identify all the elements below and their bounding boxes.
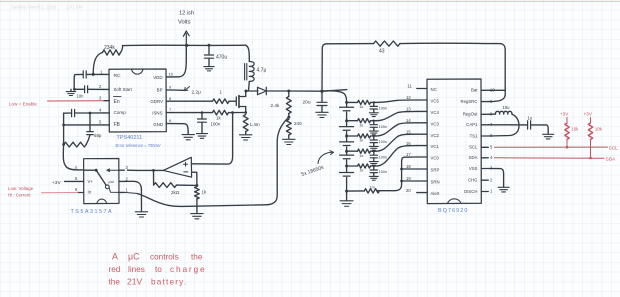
svg-text:+3V: +3V — [52, 180, 61, 186]
svg-text:SDA: SDA — [469, 155, 478, 160]
wire opamp minus — [192, 172, 197, 185]
wire VC0 SRP SRN bus — [378, 157, 417, 191]
node tap4 — [345, 165, 348, 168]
capacitor C-vc4 100n — [373, 120, 375, 122]
ground G-sense — [240, 135, 252, 140]
ground G-opamp — [191, 214, 203, 219]
node divider top — [287, 90, 290, 93]
svg-text:2.2μ: 2.2μ — [192, 90, 202, 96]
wire battery bottom — [346, 191, 348, 200]
transistor Q1 nfet — [235, 97, 237, 106]
U1 pin stubs left — [104, 74, 110, 125]
U2 throw2 — [109, 188, 119, 192]
resistor R-vc4 — [347, 120, 358, 122]
wire vc2 to pin — [376, 134, 417, 151]
U3 pin stubs left — [417, 89, 427, 193]
svg-text:20u: 20u — [303, 100, 311, 106]
wire L2 to TS1 — [489, 114, 519, 136]
svg-text:charge: charge — [170, 264, 206, 274]
battery cell B1 — [340, 107, 354, 111]
annotation arrow to battery — [318, 151, 334, 164]
resistor R-FB — [64, 142, 87, 147]
battery cell B3 — [340, 142, 354, 146]
svg-text:μC: μC — [128, 252, 140, 262]
svg-text:pol: pol — [109, 179, 114, 184]
svg-text:12 ish: 12 ish — [179, 11, 194, 17]
wire SDA red — [495, 157, 605, 159]
svg-text:240: 240 — [294, 121, 302, 126]
svg-text:SDA: SDA — [606, 157, 617, 163]
op-amp U3 BQ76920 body — [427, 79, 481, 204]
svg-text:4: 4 — [490, 155, 493, 160]
ground G-vss — [498, 187, 509, 192]
svg-text:10k: 10k — [595, 127, 603, 132]
node tap1 — [345, 119, 348, 122]
op-amp U4 body — [163, 157, 191, 177]
svg-text:2: 2 — [99, 84, 102, 89]
svg-text:VSS: VSS — [469, 166, 478, 171]
svg-text:100n: 100n — [379, 155, 387, 159]
wire BP — [172, 89, 184, 91]
svg-text:VC3: VC3 — [431, 121, 440, 126]
svg-text:controls: controls — [150, 253, 179, 262]
svg-text:Alert: Alert — [431, 191, 441, 196]
wire GND pin — [172, 124, 188, 134]
svg-text:the: the — [109, 277, 121, 286]
capacitor C-68p — [89, 113, 91, 131]
svg-text:ISNS: ISNS — [152, 111, 162, 116]
svg-text:7: 7 — [169, 107, 172, 112]
svg-text:SCL: SCL — [609, 145, 619, 151]
svg-text:1.4m: 1.4m — [250, 122, 260, 127]
U1 pin stubs right — [166, 77, 172, 124]
svg-text:VC5: VC5 — [431, 99, 440, 104]
battery cell B4 — [340, 155, 354, 159]
svg-text:DISCH: DISCH — [464, 189, 477, 194]
U2 lever — [96, 170, 106, 185]
node C-in junction — [208, 44, 211, 47]
svg-text:Volts: Volts — [178, 20, 191, 26]
svg-text:100n: 100n — [211, 122, 221, 127]
svg-text:14: 14 — [406, 118, 411, 123]
svg-text:TS1: TS1 — [470, 133, 478, 138]
svg-text:17: 17 — [406, 152, 411, 157]
wire comp-FB vertical — [64, 113, 104, 144]
svg-text:TPS40211: TPS40211 — [117, 135, 143, 141]
svg-text:9: 9 — [169, 85, 172, 90]
svg-text:3: 3 — [126, 165, 129, 170]
wire rail2 right — [400, 43, 505, 95]
svg-text:18: 18 — [406, 164, 411, 169]
svg-text:RegOut: RegOut — [463, 112, 479, 117]
svg-text:+3V: +3V — [584, 112, 593, 117]
svg-text:TS5A3157A: TS5A3157A — [71, 209, 114, 215]
wire opamp plus input — [192, 113, 233, 165]
svg-text:10: 10 — [169, 72, 174, 77]
svg-text:11: 11 — [408, 84, 413, 89]
svg-text:FB: FB — [114, 122, 121, 128]
svg-text:Bat: Bat — [471, 88, 478, 93]
resistor R-vc1 — [347, 165, 358, 167]
node ISNS cap tap — [201, 111, 204, 114]
svg-text:Error reference = 700mV: Error reference = 700mV — [116, 143, 161, 148]
wire vc4 to pin — [376, 111, 417, 120]
wire Bat pin — [488, 89, 505, 91]
resistor R-pullup2 10k — [588, 123, 592, 140]
node SS junction — [73, 88, 76, 91]
svg-text:19: 19 — [406, 176, 411, 181]
wire battery bottom to sense — [345, 190, 348, 193]
svg-text:SCL: SCL — [469, 145, 478, 150]
svg-text:1k: 1k — [202, 190, 207, 195]
capacitor C-100n — [201, 113, 203, 119]
svg-text:100n: 100n — [379, 170, 387, 174]
ground G-div — [283, 139, 295, 144]
svg-text:Sunday, March 1, 2020: Sunday, March 1, 2020 — [11, 5, 57, 10]
svg-text:VC1: VC1 — [431, 144, 440, 149]
wire out to battery — [322, 90, 347, 92]
svg-text:5: 5 — [99, 120, 102, 125]
capacitor C-RC — [83, 71, 86, 78]
ground G-U1 — [182, 135, 194, 140]
svg-text:12: 12 — [406, 95, 411, 100]
svg-text:VC0: VC0 — [431, 156, 440, 161]
svg-text:100n: 100n — [379, 125, 387, 129]
svg-text:SRP: SRP — [431, 168, 440, 173]
svg-text:BQ76920: BQ76920 — [438, 208, 468, 214]
wire ISNS — [172, 112, 212, 114]
svg-text:68p: 68p — [94, 133, 102, 138]
svg-text:RegSRC: RegSRC — [461, 99, 478, 104]
svg-text:VC4: VC4 — [431, 110, 440, 115]
U2 pin stubs right — [119, 170, 124, 192]
svg-text:BP: BP — [157, 88, 163, 93]
svg-text:4.7μ: 4.7μ — [257, 68, 267, 74]
svg-text:10n: 10n — [77, 94, 85, 99]
resistor R-isns 1k — [212, 110, 228, 115]
battery cell B2 — [340, 127, 354, 131]
capacitor C-comp — [90, 112, 104, 114]
wire sw1 feedback — [124, 192, 139, 194]
node SDA junction — [589, 157, 592, 160]
svg-text:5x 18650s: 5x 18650s — [301, 165, 325, 178]
ground G-battery — [340, 201, 353, 206]
svg-text:1k: 1k — [360, 154, 364, 158]
svg-text:GDRV: GDRV — [150, 99, 163, 104]
svg-text:1k: 1k — [360, 105, 364, 109]
analog switch U2 body — [84, 159, 119, 204]
ground G-cap1 — [543, 134, 554, 139]
resistor R-vc2 — [347, 150, 358, 152]
capacitor C-in 470u — [208, 45, 210, 54]
node tap2 — [345, 135, 348, 138]
VIN arrow — [183, 31, 189, 45]
svg-text:1: 1 — [126, 188, 129, 193]
svg-text:A: A — [112, 252, 118, 262]
node VIN junction — [185, 44, 188, 47]
svg-text:20: 20 — [406, 188, 411, 193]
svg-text:GND: GND — [153, 122, 163, 127]
svg-text:1: 1 — [220, 90, 223, 95]
node tap3 — [345, 150, 348, 153]
svg-text:1k: 1k — [360, 123, 364, 127]
svg-text:100n: 100n — [379, 107, 387, 111]
wire EN red — [48, 100, 104, 102]
wire vc5 to pin — [376, 100, 417, 102]
svg-text:10k: 10k — [572, 127, 580, 132]
svg-text:NC: NC — [431, 87, 437, 92]
wire div tap feedback — [138, 117, 289, 206]
svg-text:4: 4 — [99, 108, 102, 113]
svg-text:VDD: VDD — [153, 75, 162, 80]
resistor R-vc3 — [347, 135, 358, 137]
U2 throw1 — [107, 169, 119, 172]
wire top rail 2 — [327, 43, 374, 45]
wire FB to switch — [63, 144, 78, 170]
wire battery stack — [346, 102, 348, 191]
resistor R-gnd 1k — [195, 187, 200, 199]
svg-text:5: 5 — [75, 176, 78, 181]
svg-text:Soft Start: Soft Start — [114, 87, 133, 92]
svg-text:RC: RC — [114, 73, 122, 79]
wire sw3 to opamp — [128, 169, 164, 171]
capacitor C-vc5 100n — [373, 101, 375, 103]
svg-text:Hi : Current: Hi : Current — [8, 193, 31, 198]
svg-text:2: 2 — [490, 177, 493, 182]
svg-text:CAP1: CAP1 — [466, 122, 478, 127]
wire diode to out — [289, 90, 322, 92]
node SRN — [400, 180, 403, 183]
capacitor C-SS — [85, 86, 88, 93]
svg-text:1: 1 — [100, 69, 103, 74]
svg-text:16: 16 — [406, 141, 411, 146]
svg-text:3: 3 — [99, 96, 102, 101]
svg-text:Low = Enable: Low = Enable — [9, 102, 37, 107]
svg-text:2: 2 — [126, 176, 129, 181]
wire VDD to rail — [172, 45, 186, 77]
svg-text:1: 1 — [490, 189, 493, 194]
node SRP — [400, 168, 403, 171]
node SCL junction — [566, 146, 569, 149]
inductor L1 4.7u — [246, 45, 250, 61]
capacitor C-vc1 100n — [373, 165, 375, 167]
node RC junction — [92, 73, 95, 76]
svg-text:red: red — [109, 265, 121, 274]
diode D1 — [246, 90, 258, 92]
svg-text:470u: 470u — [216, 55, 227, 61]
wire RegSRC hook — [488, 95, 505, 101]
svg-text:8: 8 — [169, 96, 172, 101]
svg-text:1k: 1k — [216, 116, 221, 121]
svg-text:Comp: Comp — [114, 110, 127, 115]
wire out up — [322, 44, 327, 91]
wire In red — [42, 192, 78, 194]
U2 common line — [84, 169, 96, 171]
svg-text:10u: 10u — [503, 105, 511, 110]
svg-text:43: 43 — [379, 49, 385, 55]
wire CAP1 — [488, 124, 527, 126]
resistor R-fb 2k — [154, 183, 177, 188]
resistor R-vc5 — [347, 101, 358, 103]
node comp junction — [89, 112, 92, 115]
op-amp U1 TPS40211 body — [109, 69, 166, 132]
node fb takeoff — [152, 169, 155, 172]
resistor R-pullup1 10k — [565, 123, 569, 140]
wire fb down — [153, 170, 155, 185]
svg-text:battery.: battery. — [151, 277, 187, 286]
svg-text:4: 4 — [75, 165, 78, 170]
svg-text:In: In — [88, 190, 92, 195]
U2 pin stubs left — [65, 170, 84, 193]
wire VSS — [488, 169, 503, 187]
wire SCL red — [495, 146, 608, 148]
svg-text:1k: 1k — [360, 169, 364, 173]
svg-text:1u: 1u — [528, 116, 533, 121]
wire out to battery — [322, 91, 347, 102]
wire sw2 down — [124, 181, 141, 211]
svg-text:1k: 1k — [360, 139, 364, 143]
svg-text:100n: 100n — [379, 140, 387, 144]
svg-text:V+: V+ — [88, 179, 94, 184]
ground G-SS — [70, 89, 72, 91]
svg-text:6: 6 — [75, 187, 78, 192]
svg-text:En: En — [114, 99, 120, 105]
wire vc3 to pin — [376, 123, 417, 136]
capacitor C-vc2 100n — [373, 150, 375, 152]
svg-text:2:41 PM: 2:41 PM — [66, 5, 83, 10]
node minus junction — [196, 184, 199, 187]
svg-text:5: 5 — [490, 145, 493, 150]
svg-text:lines: lines — [128, 265, 145, 274]
wire vc1 to pin — [376, 146, 417, 166]
U3 pin stubs right — [481, 90, 488, 191]
svg-text:Low: Voltage: Low: Voltage — [8, 186, 34, 191]
capacitor BP 2.2u note — [185, 87, 190, 91]
capacitor C-vc3 100n — [373, 135, 375, 137]
ground G-sw — [135, 212, 147, 217]
top margin red rule — [0, 1, 620, 2]
svg-text:13: 13 — [406, 107, 411, 112]
node switch-node — [244, 90, 247, 93]
svg-text:+3V: +3V — [560, 112, 569, 117]
node FB junction — [62, 124, 65, 127]
svg-text:SRN: SRN — [431, 180, 440, 185]
node isns junction — [231, 111, 234, 114]
wire GDRV — [172, 100, 213, 102]
node divider tap — [287, 116, 290, 119]
svg-text:VC2: VC2 — [431, 133, 440, 138]
resistor R-sense 1.4m — [243, 115, 248, 132]
svg-text:2kΩ: 2kΩ — [171, 190, 180, 195]
svg-text:to: to — [155, 265, 162, 274]
battery cell B5 — [340, 173, 354, 177]
node battery top tap — [345, 101, 348, 104]
wire top rail — [123, 44, 246, 46]
svg-text:the: the — [191, 253, 203, 262]
node output junction — [320, 90, 323, 93]
svg-text:6: 6 — [169, 118, 172, 123]
svg-text:21V: 21V — [127, 276, 142, 286]
wire RC pin — [93, 73, 104, 75]
svg-text:15: 15 — [406, 129, 411, 134]
svg-text:CHG: CHG — [468, 178, 478, 183]
wire C-RC to SS — [74, 74, 83, 89]
svg-text:2.4k: 2.4k — [271, 103, 280, 108]
